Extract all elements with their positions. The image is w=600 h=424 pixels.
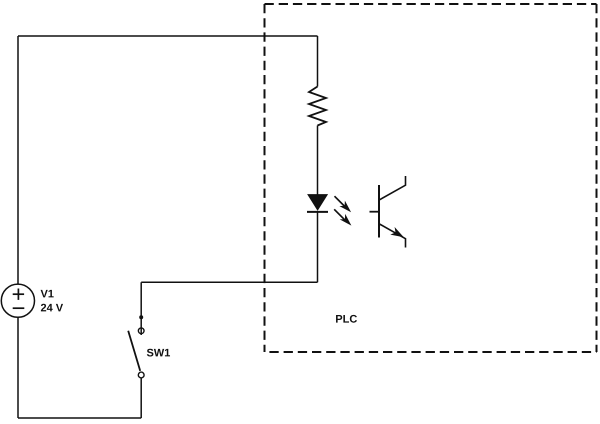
voltage source V1 circle [1,284,34,317]
wire switch to mid horizontal [140,282,142,317]
wire mid horizontal (switch to LED) [141,281,317,283]
wire resistor top lead [317,36,319,87]
PLC dashed boundary box (top, left, right edges) [265,4,597,352]
light arrow 1 [335,196,352,212]
V1 plus sign [13,289,24,300]
PLC dashed boundary box (bottom edge) [265,351,597,353]
V1 minus sign [13,307,25,309]
wire switch lower lead [140,375,142,418]
resistor R1 zigzag [309,87,326,126]
wire LED cathode lead [317,212,319,282]
light arrow 2 [334,209,351,225]
label SW1 [147,349,170,357]
wire switch top lead through terminal [140,317,142,335]
switch SW1 top terminal circle [138,328,144,334]
wire LED anode to resistor [317,126,319,195]
label 24 V [41,304,63,312]
wire top horizontal (V1+ to resistor) [18,35,318,37]
switch SW1 bottom terminal circle [138,372,144,378]
LED D1 triangle [308,195,327,210]
switch SW1 blade [128,331,140,371]
phototransistor Q1 collector [380,176,406,200]
wire bottom horizontal [18,417,141,419]
wire left vertical (V1 to bottom) [17,317,19,418]
label V1 [41,290,54,298]
phototransistor Q1 emitter arrowhead [390,227,404,237]
junction dot [139,315,143,319]
LED D1 cathode bar [307,211,328,213]
phototransistor Q1 base bar [378,185,380,238]
phototransistor Q1 base lead [370,211,380,213]
label PLC [336,315,357,323]
wire left vertical (top to V1) [17,36,19,284]
phototransistor Q1 emitter [380,224,406,248]
